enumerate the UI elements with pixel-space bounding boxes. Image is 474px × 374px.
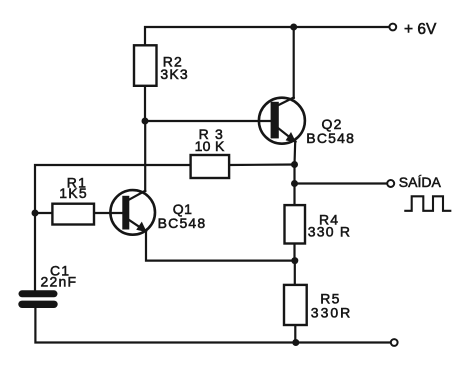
svg-text:3K3: 3K3 <box>160 66 189 82</box>
svg-text:SAÍDA: SAÍDA <box>399 174 442 190</box>
svg-text:22nF: 22nF <box>41 274 78 290</box>
svg-text:+ 6V: + 6V <box>404 21 437 38</box>
svg-text:10 K: 10 K <box>195 138 225 154</box>
svg-text:BC548: BC548 <box>158 215 207 231</box>
svg-text:1K5: 1K5 <box>59 185 88 201</box>
svg-text:330 R: 330 R <box>308 224 351 240</box>
svg-text:BC548: BC548 <box>306 130 355 146</box>
svg-text:330R: 330R <box>311 304 352 320</box>
